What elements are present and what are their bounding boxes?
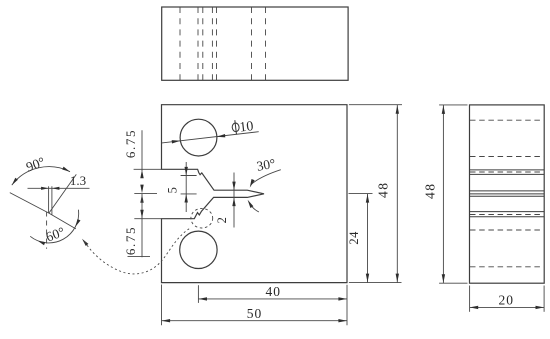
dim 40 line xyxy=(198,298,347,300)
detail leader arrow xyxy=(82,239,88,246)
dim 6.75 bottom arrow xyxy=(140,210,143,219)
svg-text:5: 5 xyxy=(165,187,179,193)
side view edge line 3 xyxy=(470,190,545,192)
60deg arc arrow top xyxy=(75,219,80,227)
svg-text:48: 48 xyxy=(375,181,390,198)
dim 20 arrow right xyxy=(536,306,545,309)
side view hidden line 5 xyxy=(470,229,544,231)
detail step face xyxy=(49,174,76,213)
ext slot bottom edge xyxy=(134,218,161,220)
svg-text:50: 50 xyxy=(247,306,263,321)
dim 50 arrow left xyxy=(162,319,171,322)
dim 5 tick top xyxy=(181,175,197,177)
dim 24 arrow bottom xyxy=(366,274,369,283)
side view edge line 1 xyxy=(470,169,545,171)
dim 40 arrow right xyxy=(338,297,347,300)
dim 1.3 line xyxy=(28,187,90,189)
top view hidden line 6 xyxy=(251,7,253,80)
side view edge line 2 xyxy=(470,173,545,175)
detail centerline dashed xyxy=(46,212,48,249)
top view hidden line 7 xyxy=(265,7,267,80)
bottom hole xyxy=(180,231,217,268)
phi10 arrow right xyxy=(217,134,226,137)
detail step wall right xyxy=(51,186,53,215)
dim 24 arrow top xyxy=(366,194,369,203)
side view edge line 6 xyxy=(470,211,545,213)
dim 5 line xyxy=(185,162,187,212)
top view hidden line 4 xyxy=(211,7,213,80)
dim 2 arrow top xyxy=(232,182,235,191)
ext right edge down xyxy=(346,285,348,326)
dim 20 line xyxy=(470,306,544,308)
dim 6.75 top line xyxy=(141,130,143,171)
dim 48 side line xyxy=(442,105,444,283)
dim 5 tick bottom xyxy=(181,193,197,195)
top view hidden line 2 xyxy=(197,7,199,80)
ext bottom edge right xyxy=(349,282,402,284)
ext left edge down xyxy=(161,285,163,326)
detail indicator ellipse xyxy=(191,208,213,228)
side view edge line 5 xyxy=(470,195,545,197)
ext top edge right xyxy=(349,104,402,106)
dim 48 side arrow top xyxy=(442,105,445,114)
ext centerline right xyxy=(349,193,373,195)
phi10 arrow left xyxy=(172,140,181,143)
side view outline xyxy=(470,105,545,283)
side view hidden line 1 xyxy=(470,119,544,121)
dim 24 line xyxy=(367,194,369,283)
dim 20 arrow left xyxy=(470,306,479,309)
side view hidden line 4 xyxy=(470,214,544,216)
svg-text:20: 20 xyxy=(499,292,515,307)
phi10 leader line xyxy=(162,132,259,143)
60deg arc xyxy=(30,210,78,243)
svg-text:1.3: 1.3 xyxy=(70,173,86,188)
underline below 6.75 xyxy=(128,256,151,258)
ext side bottom left xyxy=(439,282,467,284)
svg-text:40: 40 xyxy=(266,284,282,299)
ext slot top edge xyxy=(134,168,162,170)
arrow down at centerline xyxy=(140,185,143,194)
svg-text:24: 24 xyxy=(347,231,361,245)
side view hidden line 2 xyxy=(470,156,544,158)
dim 6.75 top arrow xyxy=(140,170,143,179)
dim 48 arrow bottom xyxy=(396,274,399,283)
ext hole centerline xyxy=(197,285,199,303)
tick centerline left xyxy=(134,193,157,195)
ext side right down xyxy=(543,286,545,312)
top view hidden line 1 xyxy=(179,7,181,80)
detail step wall left xyxy=(48,186,50,213)
dim 1.3 arrow left xyxy=(41,187,49,190)
top view hidden line 3 xyxy=(202,7,204,80)
detail notch face right xyxy=(49,213,76,229)
detail leader dashed curve xyxy=(85,228,191,274)
dim 50 line xyxy=(162,320,348,322)
phi10 label xyxy=(231,118,254,136)
30deg arrow lower xyxy=(248,200,254,208)
dim 48 arrow top xyxy=(396,105,399,114)
svg-text:6.75: 6.75 xyxy=(123,226,138,255)
svg-text:6.75: 6.75 xyxy=(123,129,138,158)
90deg arc xyxy=(12,167,70,185)
dim 48 line xyxy=(396,105,398,283)
30deg leader lower xyxy=(250,203,259,212)
top hole xyxy=(180,119,217,156)
svg-text:2: 2 xyxy=(215,217,229,223)
90deg arc arrow right xyxy=(62,167,70,172)
dim 2 line xyxy=(233,173,235,228)
top view outline xyxy=(162,7,348,80)
dim 48 side arrow bottom xyxy=(442,274,445,283)
svg-text:48: 48 xyxy=(423,183,438,200)
ext side top left xyxy=(439,104,467,106)
dim 1.3 arrow right xyxy=(52,187,60,190)
ext side left down xyxy=(469,286,471,312)
side view edge line 7 xyxy=(470,216,545,218)
dim 5 arrow top xyxy=(185,167,188,176)
dim 50 arrow right xyxy=(338,319,347,322)
arrow up at centerline xyxy=(140,194,143,203)
side view edge line 4 xyxy=(470,193,545,195)
top view hidden line 5 xyxy=(216,7,218,80)
dim 6.75 bottom line xyxy=(141,194,143,258)
side view hidden line 6 xyxy=(470,266,544,268)
30deg arrow upper xyxy=(250,179,255,188)
dim 2 arrow bottom xyxy=(232,198,235,207)
front view outline with notch xyxy=(162,105,348,283)
svg-text:10: 10 xyxy=(239,119,255,136)
detail notch face left xyxy=(10,193,49,214)
30deg leader upper xyxy=(251,170,281,185)
dim 5 arrow bottom xyxy=(185,194,188,203)
60deg arc arrow bottom xyxy=(37,241,45,246)
side view hidden line 3 xyxy=(470,171,544,173)
dim 40 arrow left xyxy=(198,297,207,300)
90deg arc arrow left xyxy=(12,178,18,185)
